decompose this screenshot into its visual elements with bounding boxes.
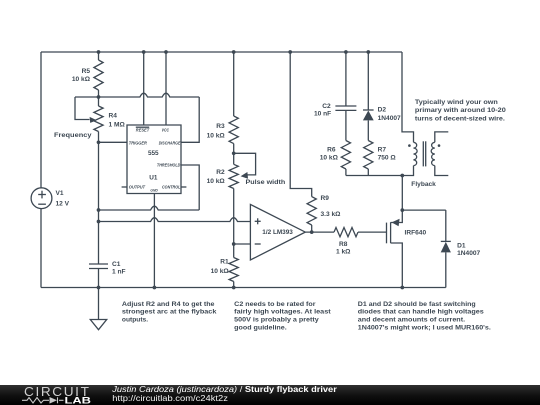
svg-text:1/2 LM393: 1/2 LM393	[262, 229, 293, 236]
svg-text:diodes that can handle high vo: diodes that can handle high voltages	[358, 309, 484, 316]
svg-text:Typically wind your own: Typically wind your own	[415, 99, 498, 106]
svg-text:1 MΩ: 1 MΩ	[109, 121, 126, 128]
svg-text:turns of decent-sized wire.: turns of decent-sized wire.	[415, 115, 505, 122]
svg-text:CONTROL: CONTROL	[162, 184, 181, 189]
svg-text:RESET: RESET	[136, 128, 150, 133]
svg-text:Adjust R2 and R4 to get the: Adjust R2 and R4 to get the	[122, 301, 215, 308]
svg-text:R6: R6	[327, 147, 336, 154]
svg-text:C2 needs to be rated for: C2 needs to be rated for	[234, 301, 316, 308]
svg-text:R3: R3	[216, 123, 225, 130]
svg-text:10 kΩ: 10 kΩ	[72, 76, 91, 83]
svg-text:1N4007's might work; I used MU: 1N4007's might work; I used MUR160's.	[358, 324, 491, 331]
svg-text:R8: R8	[339, 241, 348, 248]
svg-text:fairly high voltages. At least: fairly high voltages. At least	[234, 309, 331, 316]
svg-text:LAB: LAB	[65, 395, 92, 405]
svg-text:strongest arc at the flyback: strongest arc at the flyback	[122, 309, 217, 316]
svg-text:R7: R7	[378, 147, 387, 154]
svg-text:Justin Cardoza (justincardoza): Justin Cardoza (justincardoza) / Sturdy …	[111, 385, 338, 394]
svg-text:good guideline.: good guideline.	[234, 324, 287, 331]
svg-text:1N4007: 1N4007	[457, 250, 480, 257]
svg-text:10 kΩ: 10 kΩ	[320, 155, 339, 162]
svg-text:C1: C1	[112, 261, 121, 268]
svg-text:750 Ω: 750 Ω	[378, 155, 397, 162]
svg-text:1 kΩ: 1 kΩ	[336, 249, 351, 256]
svg-text:10 kΩ: 10 kΩ	[211, 268, 230, 275]
svg-text:D1 and D2 should be fast switc: D1 and D2 should be fast switching	[358, 301, 476, 308]
svg-text:outputs.: outputs.	[122, 317, 148, 324]
svg-text:V1: V1	[56, 190, 64, 197]
svg-text:VCC: VCC	[162, 128, 170, 133]
svg-text:10 kΩ: 10 kΩ	[207, 178, 226, 185]
svg-text:http://circuitlab.com/c24kt2z: http://circuitlab.com/c24kt2z	[112, 394, 228, 403]
svg-text:1N4007: 1N4007	[378, 115, 401, 122]
svg-text:THRESHOLD: THRESHOLD	[157, 163, 181, 168]
svg-text:primary with around 10-20: primary with around 10-20	[415, 107, 506, 114]
svg-text:3.3 kΩ: 3.3 kΩ	[321, 211, 342, 218]
svg-text:IRF640: IRF640	[405, 229, 427, 236]
svg-text:10 nF: 10 nF	[314, 110, 331, 117]
svg-text:R4: R4	[109, 113, 118, 120]
svg-text:Frequency: Frequency	[54, 132, 92, 139]
svg-text:R1: R1	[220, 259, 229, 266]
svg-text:10 kΩ: 10 kΩ	[207, 132, 226, 139]
svg-text:U1: U1	[149, 174, 158, 181]
svg-text:TRIGGER: TRIGGER	[129, 140, 148, 145]
svg-text:DISCHARGE: DISCHARGE	[159, 140, 182, 145]
svg-text:D1: D1	[457, 243, 466, 250]
svg-text:OUTPUT: OUTPUT	[129, 184, 146, 189]
svg-text:GND: GND	[150, 188, 158, 193]
svg-text:500V is probably a pretty: 500V is probably a pretty	[234, 317, 319, 324]
svg-text:D2: D2	[378, 107, 387, 114]
svg-text:R9: R9	[321, 195, 330, 202]
svg-text:1 nF: 1 nF	[112, 268, 126, 275]
svg-text:R5: R5	[82, 68, 91, 75]
svg-text:Flyback: Flyback	[411, 181, 436, 188]
svg-text:555: 555	[148, 150, 159, 157]
svg-text:and decent amounts of current.: and decent amounts of current.	[358, 317, 466, 324]
svg-text:12 V: 12 V	[56, 200, 70, 207]
svg-text:R2: R2	[216, 169, 225, 176]
svg-text:Pulse width: Pulse width	[246, 179, 286, 186]
svg-text:C2: C2	[322, 103, 331, 110]
